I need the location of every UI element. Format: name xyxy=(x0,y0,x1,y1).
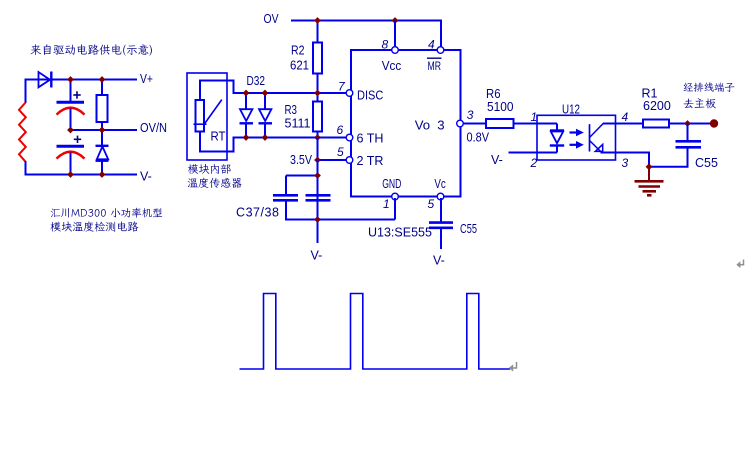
wire cap left branch upper xyxy=(285,176,287,196)
opto U12 led xyxy=(537,124,564,153)
ground xyxy=(635,167,664,196)
svg-text:1: 1 xyxy=(383,197,390,211)
label C37/38 xyxy=(236,206,279,220)
svg-text:6200: 6200 xyxy=(643,99,671,113)
junction OVN mid xyxy=(67,127,74,134)
svg-text:DISC: DISC xyxy=(357,87,384,102)
label pin7 number xyxy=(338,79,346,93)
label Vo 3 xyxy=(415,117,445,132)
resistor R1 body xyxy=(643,120,669,128)
junction gnd xyxy=(646,163,653,170)
resistor R2 body xyxy=(313,43,322,74)
resistor bleeder body xyxy=(97,95,108,122)
svg-text:OV/N: OV/N xyxy=(140,121,167,135)
wire U12 pin4 to R1 xyxy=(616,123,644,125)
svg-text:OV: OV xyxy=(264,12,280,26)
wire mid column upper xyxy=(70,80,72,102)
label GND xyxy=(382,176,401,191)
svg-text:6 TH: 6 TH xyxy=(357,131,384,146)
junction TR 3V5 xyxy=(314,157,321,164)
label pin1 number xyxy=(383,197,390,211)
junction V- right xyxy=(99,171,106,178)
inductor L1 winding xyxy=(19,103,26,162)
label OV xyxy=(264,12,280,26)
wire U12 pin3 down xyxy=(616,153,650,167)
svg-text:V+: V+ xyxy=(140,72,153,86)
wire cap group vertical xyxy=(317,160,319,243)
label V- opto xyxy=(491,153,503,167)
label V- pin5 xyxy=(433,254,445,268)
label pin3 number xyxy=(467,108,474,122)
junction OV pin8 xyxy=(392,17,399,24)
capacitor C38 plates xyxy=(306,195,331,200)
wire V- to U12 pin2 xyxy=(509,152,558,154)
text note: 温度传感器 xyxy=(188,178,242,188)
capacitor C37 plates xyxy=(273,195,298,200)
pin 5 circle xyxy=(437,193,444,200)
wire TH net xyxy=(233,137,348,139)
svg-text:5: 5 xyxy=(337,145,344,159)
wire left vertical top xyxy=(25,80,27,104)
capacitor C+ bottom plates xyxy=(57,146,85,158)
svg-text:R2: R2 xyxy=(291,43,305,57)
wire V- rail xyxy=(25,174,138,176)
wire R1 to terminal xyxy=(669,123,713,125)
wire resistor stubs xyxy=(101,80,103,132)
label R3 xyxy=(285,103,298,117)
text note: 模块内部 xyxy=(188,164,231,174)
svg-text:5111: 5111 xyxy=(285,117,311,131)
svg-text:4: 4 xyxy=(622,110,629,124)
junction DISC d32a xyxy=(243,90,250,97)
pilcrow return mark xyxy=(509,362,517,372)
diode D1 xyxy=(39,72,52,88)
text note: 汇川MD300 小功率机型 xyxy=(51,208,163,218)
label U12 xyxy=(562,102,580,116)
wire RT bottom loop xyxy=(200,132,234,152)
wire pin5 stub xyxy=(440,198,442,222)
svg-text:V-: V- xyxy=(491,153,503,167)
opto U12 phototransistor xyxy=(590,123,616,152)
svg-text:0.8V: 0.8V xyxy=(467,131,490,145)
wire TR net xyxy=(318,159,348,161)
wire DISC net xyxy=(233,92,348,94)
wire R6 to U12 xyxy=(514,123,539,125)
resistor R3 body xyxy=(313,102,322,132)
junction TH d32a xyxy=(243,134,250,141)
capacitor C55b plates xyxy=(676,141,702,147)
label RT xyxy=(211,129,226,143)
svg-text:2 TR: 2 TR xyxy=(357,153,384,168)
resistor R6 body xyxy=(486,119,514,128)
op-amp U13 SE555 body xyxy=(351,50,461,197)
wire cap group top xyxy=(286,175,318,177)
junction TH d32b xyxy=(262,134,269,141)
svg-text:C55: C55 xyxy=(695,156,718,170)
terminal to mainboard xyxy=(710,119,718,127)
label R2 xyxy=(291,43,305,57)
wire R2 top stub xyxy=(317,21,319,43)
svg-text:Vc: Vc xyxy=(434,176,446,191)
capacitor C+ bottom plus xyxy=(74,136,81,143)
wire Vo net xyxy=(463,123,486,125)
pin 8 circle xyxy=(392,47,399,54)
wire mid column between caps xyxy=(70,109,72,132)
wire pin4 stub xyxy=(440,21,442,49)
pin 6 circle xyxy=(346,134,353,141)
capacitor C+ top plates xyxy=(57,102,85,114)
wire cap left branch lower xyxy=(285,201,287,221)
label U12 pin4 xyxy=(622,110,629,124)
wire cap group bottom xyxy=(286,219,395,221)
svg-text:2: 2 xyxy=(530,156,538,170)
svg-text:5100: 5100 xyxy=(487,100,514,114)
svg-text:V-: V- xyxy=(433,254,445,268)
thermistor RT diagonal xyxy=(194,100,222,125)
wire OV rail xyxy=(291,21,441,48)
capacitor C+ top plus xyxy=(73,91,80,98)
label pin6 number xyxy=(337,123,344,137)
diode zener DZ xyxy=(96,130,109,175)
label V- xyxy=(140,169,152,183)
capacitor C55a plates xyxy=(429,223,453,228)
label 2 TR xyxy=(357,153,384,168)
label U13:SE555 xyxy=(368,225,432,239)
opto U12 box xyxy=(537,115,616,160)
svg-text:MR: MR xyxy=(428,59,442,73)
label R1 xyxy=(642,86,658,100)
junction OVN right xyxy=(99,127,106,134)
svg-text:5: 5 xyxy=(428,197,435,211)
pin 1 circle xyxy=(392,193,399,200)
label U12 pin1 xyxy=(531,110,538,124)
svg-text:4: 4 xyxy=(428,38,435,52)
wire RT top loop xyxy=(200,81,234,101)
label 6 TH xyxy=(357,131,384,146)
sensor enclosure box xyxy=(187,73,227,160)
junction cap top xyxy=(314,172,321,179)
label C55a xyxy=(460,222,477,236)
junction TH R3 xyxy=(314,134,321,141)
pin 7 circle xyxy=(346,90,353,97)
label pin8 number xyxy=(382,38,389,52)
label 6200 xyxy=(643,99,671,113)
wire C55b bottom xyxy=(649,148,688,167)
label 0.8V xyxy=(467,131,490,145)
label C55b xyxy=(695,156,718,170)
wire R3 bottom stub xyxy=(317,132,319,139)
opto U12 arrow2 xyxy=(570,141,584,149)
junction cap bottom xyxy=(314,216,321,223)
pilcrow return mark 2 xyxy=(736,260,743,269)
junction V+ mid xyxy=(67,76,74,83)
svg-text:3: 3 xyxy=(437,117,444,132)
label DISC xyxy=(357,87,384,102)
svg-text:Vcc: Vcc xyxy=(382,58,402,73)
text note: 模块温度检测电路 xyxy=(50,221,138,231)
wire TH-TR vertical xyxy=(317,138,319,161)
svg-text:C37/38: C37/38 xyxy=(236,206,279,220)
wire mid column lower xyxy=(70,153,72,176)
svg-text:C55: C55 xyxy=(460,222,477,236)
svg-text:D32: D32 xyxy=(247,74,266,88)
junction V- mid xyxy=(67,171,74,178)
pin 3 circle xyxy=(457,120,464,127)
svg-text:Vo: Vo xyxy=(415,117,430,132)
svg-text:R6: R6 xyxy=(486,87,501,101)
svg-text:GND: GND xyxy=(382,176,401,191)
wire OV/N rail xyxy=(71,129,138,131)
label OV/N xyxy=(140,121,167,135)
svg-text:621: 621 xyxy=(290,59,309,73)
svg-text:U12: U12 xyxy=(562,102,580,116)
junction R1 C55b xyxy=(684,120,691,127)
junction OV R2 xyxy=(314,17,321,24)
text note: 经排线端子 xyxy=(684,82,735,92)
label Vcc xyxy=(382,58,402,73)
svg-text:R3: R3 xyxy=(285,103,298,117)
svg-text:6: 6 xyxy=(337,123,344,137)
text note: 来自驱动电路供电(示意) xyxy=(30,44,151,55)
label Vc xyxy=(434,176,446,191)
label U12 pin2 xyxy=(530,156,538,170)
label 5100 xyxy=(487,100,514,114)
wire R2 bottom stub xyxy=(317,74,319,94)
label pin4 number xyxy=(428,38,435,52)
wire C55a bottom xyxy=(440,228,442,249)
wire pin8 stub xyxy=(394,21,396,49)
pin 2 circle xyxy=(346,157,353,164)
wire V+ rail xyxy=(25,79,138,81)
label pin2 number xyxy=(337,145,344,159)
svg-text:1: 1 xyxy=(531,110,538,124)
label 5111 xyxy=(285,117,311,131)
svg-text:3: 3 xyxy=(467,108,474,122)
text note: 去主板 xyxy=(684,98,716,108)
svg-text:3.5V: 3.5V xyxy=(290,153,313,167)
label MR overline xyxy=(427,58,442,73)
wire pin1 stub xyxy=(394,198,396,220)
label pin5 number xyxy=(428,197,435,211)
pin 4 circle xyxy=(437,47,444,54)
opto U12 arrow1 xyxy=(570,129,584,137)
junction DISC R2R3 xyxy=(314,90,321,97)
svg-text:3: 3 xyxy=(622,156,629,170)
thermistor RT body xyxy=(196,100,205,132)
label R6 xyxy=(486,87,501,101)
label V- cap vertical xyxy=(311,249,323,263)
label 621 xyxy=(290,59,309,73)
junction V+ right xyxy=(99,76,106,83)
junction DISC d32b xyxy=(262,90,269,97)
diode D32b xyxy=(259,93,273,138)
svg-text:RT: RT xyxy=(211,129,226,143)
label U12 pin3 xyxy=(622,156,629,170)
label 3.5V xyxy=(290,153,313,167)
svg-text:8: 8 xyxy=(382,38,389,52)
diode D32a xyxy=(240,93,254,138)
wire R3 top stub xyxy=(317,93,319,102)
label D32 xyxy=(247,74,266,88)
wire C55b top stub xyxy=(687,124,689,142)
wire left vertical bottom xyxy=(25,161,27,176)
svg-text:U13:SE555: U13:SE555 xyxy=(368,225,432,239)
svg-text:V-: V- xyxy=(140,169,152,183)
label V+ xyxy=(140,72,153,86)
svg-text:V-: V- xyxy=(311,249,323,263)
waveform output pulses xyxy=(240,294,511,370)
